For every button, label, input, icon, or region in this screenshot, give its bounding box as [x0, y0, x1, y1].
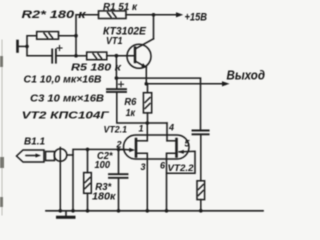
resistor R2 [37, 32, 59, 40]
shield rail junction dot [59, 209, 63, 213]
capacitor C4 [193, 131, 209, 135]
wire emitter down [145, 67, 147, 84]
wire base lead VT1 [116, 55, 135, 57]
wire R1 right [126, 14, 154, 16]
wire collector up [153, 15, 155, 39]
R7 rail junction dot [199, 209, 203, 213]
transistor VT1 [127, 39, 154, 69]
bootstrap node junction dot [115, 76, 119, 80]
pin 4 lead [166, 123, 168, 141]
VT2.1 channel [135, 139, 138, 157]
svg-text:+15В: +15В [185, 12, 208, 24]
C2 rail junction dot [117, 209, 121, 213]
drain node junction dot [146, 121, 150, 125]
pin 3 rail junction dot [146, 209, 150, 213]
svg-text:180к: 180к [92, 192, 116, 203]
svg-text:3: 3 [141, 162, 146, 172]
wire base column down [115, 56, 117, 78]
ground symbol [65, 211, 67, 217]
VT2.2 gate wire loop [167, 151, 196, 173]
wire riser node B to R1 [76, 15, 99, 56]
svg-text:1к: 1к [126, 108, 136, 119]
sensor B1.1 [17, 150, 55, 162]
wire R5 left [76, 55, 87, 57]
wire R2 right [59, 35, 77, 37]
signal wire from shield [67, 149, 119, 155]
node B junction dot bottom [74, 54, 78, 58]
svg-text:С3 10 мк×16В: С3 10 мк×16В [30, 93, 104, 105]
wire node A up to R2 [27, 36, 37, 47]
node A junction dot [25, 45, 29, 49]
wire C2 column upper [118, 149, 120, 174]
svg-text:1: 1 [139, 124, 144, 134]
svg-text:R6: R6 [124, 97, 136, 108]
R3 rail junction dot [86, 209, 90, 213]
svg-text:4: 4 [168, 123, 174, 133]
node +15V junction dot [152, 13, 156, 17]
shield circle [54, 149, 67, 162]
wire gate feed [119, 148, 125, 150]
+15V arrow [154, 14, 177, 16]
C3 plus sign [119, 82, 124, 87]
resistor R3 [87, 149, 89, 172]
VT2.1 drain stub [136, 140, 147, 142]
drop rail junction dot [71, 209, 75, 213]
VT2.1 gate wire [119, 148, 131, 150]
wire terminal to node [18, 45, 27, 47]
svg-text:VT2.2: VT2.2 [168, 163, 195, 174]
dual JFET VT2 envelope [124, 135, 190, 159]
VT2.1 source stub and pin 3 down [136, 153, 147, 211]
wire C1 right [56, 55, 76, 57]
wire R5 right to base node [107, 55, 117, 57]
R3 top junction dot [86, 148, 90, 152]
input terminal X1 [16, 41, 19, 52]
C1 plus sign [57, 46, 62, 51]
wire C4 to R7 [200, 134, 202, 181]
capacitor C2 [109, 174, 128, 178]
VT2.2 source stub and pin 6 down [167, 153, 177, 211]
ground rail [46, 210, 263, 212]
capacitor C3 [116, 78, 118, 89]
base node junction dot [115, 54, 119, 58]
pin 6 rail junction dot [165, 209, 169, 213]
resistor R1 [99, 11, 127, 19]
resistor R5 [87, 52, 107, 60]
VT2.2 drain stub [167, 140, 177, 142]
capacitor C1 [52, 49, 56, 62]
shield wire down [59, 148, 61, 211]
wire bootstrap horizontal and down [116, 78, 200, 130]
C2 top junction dot [117, 148, 121, 152]
pin 1 lead [146, 123, 148, 141]
svg-text:VT2.1: VT2.1 [104, 125, 128, 136]
VT2.2 channel [175, 139, 178, 157]
output wire [146, 83, 223, 85]
scan edge artifacts [1, 40, 3, 215]
svg-text:R1 51 к: R1 51 к [103, 1, 138, 13]
node B junction dot top [74, 34, 78, 38]
svg-text:С1 10,0 мк×16В: С1 10,0 мк×16В [24, 74, 102, 86]
wire C3 bottom to drain node [117, 92, 167, 123]
wire node A down to C1 [27, 46, 52, 55]
svg-text:R5 180 к: R5 180 к [71, 62, 122, 74]
svg-text:VT1: VT1 [106, 35, 123, 47]
resistor R7 [197, 181, 205, 200]
svg-text:100: 100 [95, 160, 111, 171]
emitter node junction dot [145, 82, 149, 86]
svg-text:В1.1: В1.1 [24, 136, 45, 148]
wire parallel drop [72, 155, 74, 211]
svg-text:VT2 КПС104Г: VT2 КПС104Г [22, 110, 110, 122]
svg-text:Выход: Выход [227, 69, 266, 83]
resistor R6 [147, 84, 149, 93]
